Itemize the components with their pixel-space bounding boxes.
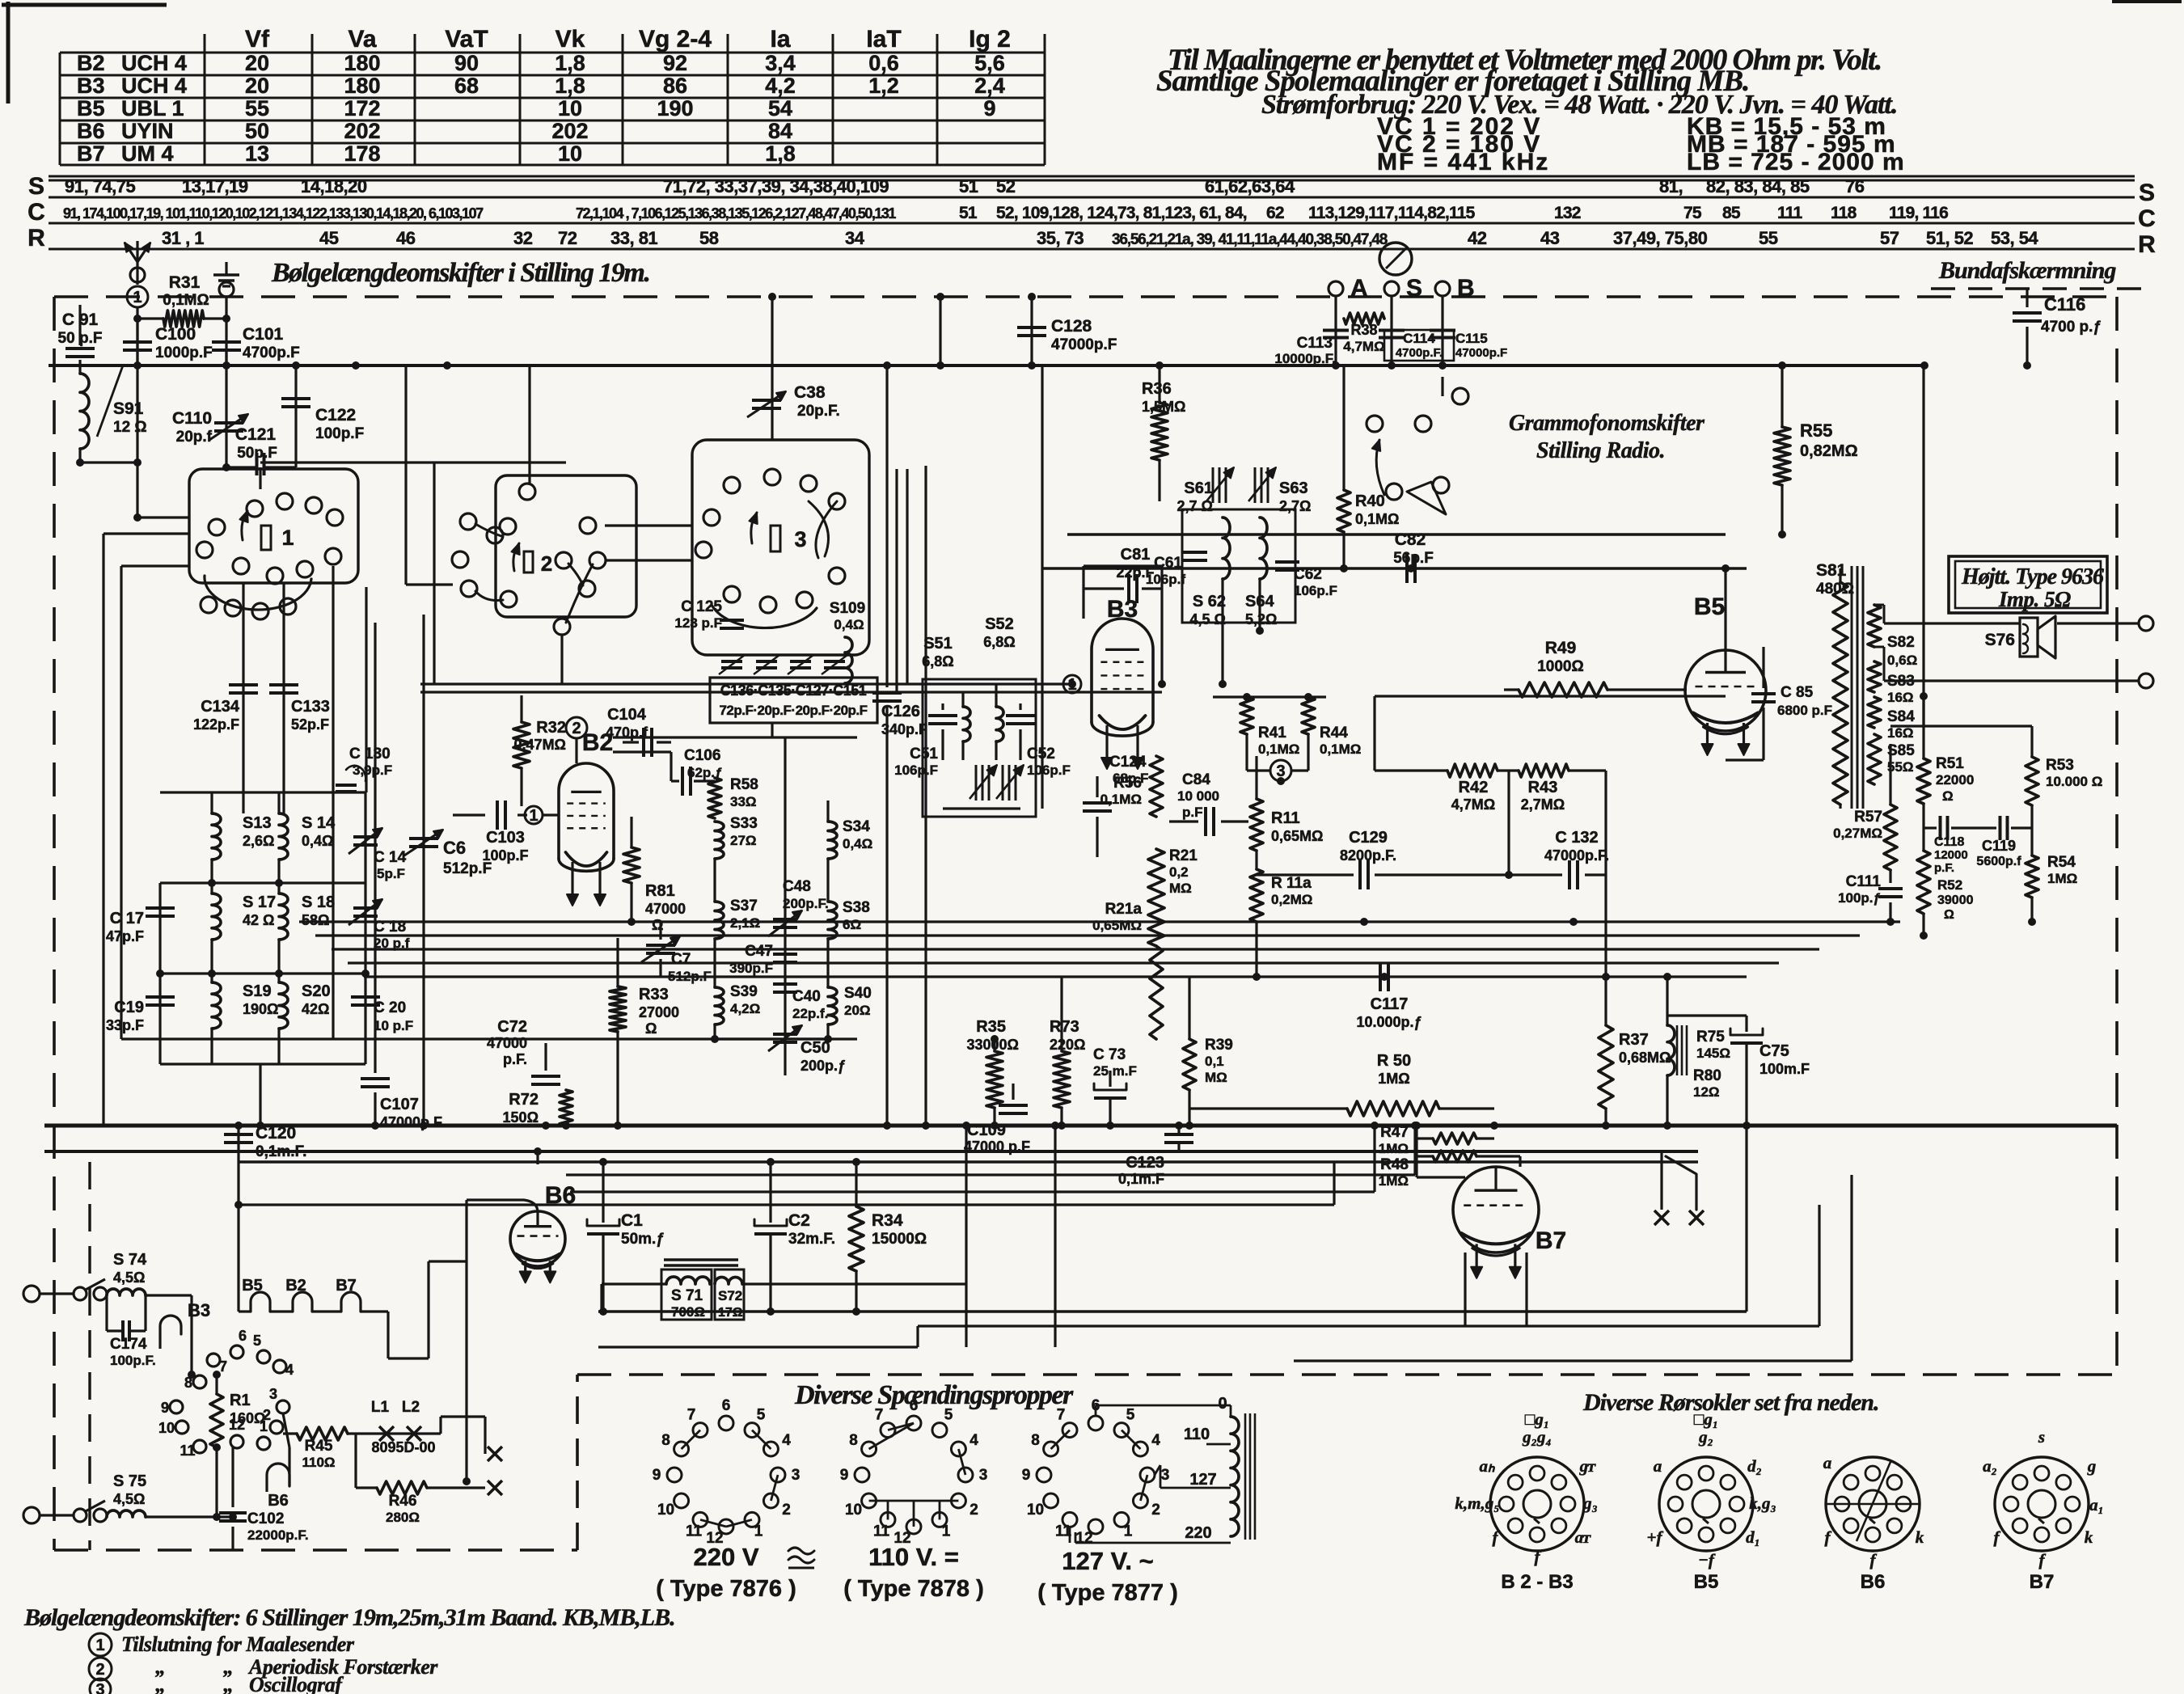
capacitor C2 — [754, 1232, 787, 1236]
svg-text:47000p.F: 47000p.F — [1051, 336, 1117, 353]
svg-text:10: 10 — [657, 1502, 674, 1519]
svg-text:R75: R75 — [1696, 1029, 1725, 1046]
svg-text:B5: B5 — [1694, 594, 1725, 620]
svg-text:S63: S63 — [1279, 479, 1308, 497]
wire vertical x453 — [365, 587, 367, 792]
svg-text:UCH 4: UCH 4 — [121, 74, 187, 98]
svg-text:R38: R38 — [1350, 322, 1377, 338]
wire vertical x2290 drop — [1850, 1175, 1852, 1361]
resistor R47 — [1433, 1133, 1476, 1144]
terminal A — [1329, 281, 1343, 296]
svg-text:R34: R34 — [872, 1211, 903, 1230]
capacitor C104 — [623, 741, 639, 743]
svg-text:2,6Ω: 2,6Ω — [243, 833, 274, 849]
svg-text:82, 83, 84, 85: 82, 83, 84, 85 — [1706, 176, 1810, 196]
gram switch arrow — [1376, 440, 1384, 495]
svg-text:27Ω: 27Ω — [730, 833, 757, 848]
rotary switch wafer 3 — [692, 440, 869, 655]
svg-text:R44: R44 — [1320, 724, 1348, 741]
svg-text:B7: B7 — [336, 1277, 357, 1295]
resistor R40 — [1342, 365, 1345, 490]
resistor R53 — [2026, 757, 2038, 805]
svg-text:92: 92 — [663, 51, 687, 75]
wire gram to C115 col — [1441, 377, 1443, 396]
svg-text:S52: S52 — [985, 615, 1014, 633]
svg-text:150Ω: 150Ω — [503, 1109, 539, 1126]
svg-text:100p.F.: 100p.F. — [110, 1353, 156, 1368]
svg-text:0,4Ω: 0,4Ω — [834, 617, 864, 632]
svg-text:L1: L1 — [371, 1399, 390, 1416]
svg-text:R53: R53 — [2046, 757, 2074, 774]
socket pin 2 — [270, 1421, 283, 1434]
svg-text:C61: C61 — [1154, 555, 1182, 572]
svg-text:4,5Ω: 4,5Ω — [113, 1269, 145, 1286]
svg-text:1MΩ: 1MΩ — [2047, 871, 2077, 886]
svg-text:B6: B6 — [545, 1182, 576, 1209]
wire lower return 2 — [598, 1345, 918, 1348]
svg-text:Oscillograf: Oscillograf — [249, 1673, 344, 1694]
iron core inductor L1 L2 — [348, 1432, 441, 1434]
svg-text:180: 180 — [344, 74, 380, 98]
svg-text:3: 3 — [794, 527, 806, 551]
svg-text:50: 50 — [245, 119, 269, 143]
wire speaker line top — [1884, 622, 2020, 624]
resistor R33 — [610, 986, 626, 1032]
mains terminal upper — [23, 1286, 40, 1302]
svg-text:34: 34 — [845, 228, 865, 248]
svg-text:127: 127 — [1189, 1471, 1216, 1489]
svg-text:C128: C128 — [1051, 317, 1092, 336]
capacitor C47 — [773, 953, 797, 956]
svg-text:11: 11 — [686, 1523, 703, 1540]
junction dots — [133, 361, 142, 370]
trimmer C18 — [364, 883, 366, 974]
switch 3 cross contacts — [809, 501, 829, 556]
svg-text:7: 7 — [687, 1407, 696, 1424]
svg-text:Ig 2: Ig 2 — [969, 26, 1011, 53]
wire C101 down — [225, 350, 227, 466]
capacitor C109 — [1012, 1084, 1014, 1100]
svg-text:172: 172 — [344, 96, 380, 120]
svg-text:10: 10 — [158, 1420, 175, 1436]
socket pin 6 — [230, 1345, 243, 1358]
svg-text:91, 74,75: 91, 74,75 — [65, 176, 136, 196]
capacitor C62 — [1275, 560, 1299, 564]
svg-text:1: 1 — [133, 289, 142, 306]
svg-text:9: 9 — [161, 1400, 169, 1416]
svg-text:36,56,21,21a, 39, 41,11,11a,44: 36,56,21,21a, 39, 41,11,11a,44,40,38,50,… — [1112, 231, 1388, 248]
svg-text:C121: C121 — [235, 425, 277, 444]
svg-text:7: 7 — [1057, 1407, 1066, 1424]
wire vertical x1750 drop — [1413, 1126, 1416, 1175]
svg-text:C116: C116 — [2044, 294, 2085, 315]
svg-text:S39: S39 — [730, 983, 758, 1000]
svg-text:1MΩ: 1MΩ — [1379, 1141, 1409, 1156]
svg-text:g₂g₄: g₂g₄ — [1522, 1427, 1552, 1447]
svg-text:76: 76 — [1845, 176, 1865, 196]
svg-text:C106: C106 — [684, 747, 720, 764]
capacitor C128 — [1030, 297, 1033, 365]
svg-text:S 71: S 71 — [671, 1287, 703, 1304]
svg-text:R51: R51 — [1936, 755, 1964, 772]
resistor R11a — [1250, 869, 1263, 922]
svg-text:55: 55 — [245, 96, 269, 120]
wire choke leads — [602, 1282, 666, 1285]
wire vertical x1195 — [965, 1126, 967, 1347]
terminal speaker bottom — [2139, 674, 2153, 688]
wire L2 to cross — [439, 1417, 441, 1434]
svg-text:100p.F: 100p.F — [482, 847, 528, 864]
resistor R48 — [1433, 1151, 1476, 1162]
svg-text:R80: R80 — [1693, 1067, 1721, 1084]
svg-text:13: 13 — [245, 142, 269, 166]
svg-text:R21: R21 — [1169, 847, 1198, 864]
heater B7 bottom — [341, 1292, 361, 1312]
svg-text:Bølgelængdeomskifter: 6 Stilli: Bølgelængdeomskifter: 6 Stillinger 19m,2… — [23, 1604, 675, 1631]
svg-text:22000p.F.: 22000p.F. — [247, 1527, 309, 1543]
variable capacitor C6 — [422, 615, 425, 1126]
svg-text:R: R — [27, 225, 45, 251]
svg-text:C122: C122 — [315, 406, 356, 425]
comb adjust S63 — [1254, 467, 1257, 503]
svg-text:C104: C104 — [607, 706, 647, 724]
wire S74 right — [146, 1294, 192, 1296]
socket pin 3 — [277, 1400, 289, 1413]
svg-text:k: k — [2085, 1527, 2093, 1547]
resistor R42 — [1447, 764, 1498, 777]
svg-text:C48: C48 — [783, 878, 811, 895]
svg-text:MF = 441 kHz: MF = 441 kHz — [1377, 149, 1549, 175]
svg-text:S82: S82 — [1887, 634, 1915, 651]
svg-text:C136·C135·C127·C151: C136·C135·C127·C151 — [720, 682, 867, 699]
svg-text:−f: −f — [1698, 1550, 1716, 1569]
socket pin 1 — [257, 1437, 270, 1450]
svg-text:1: 1 — [1124, 1523, 1133, 1540]
resistor R11 — [1250, 799, 1263, 851]
resistor R72 — [560, 1090, 572, 1126]
svg-text:R11: R11 — [1271, 809, 1300, 827]
svg-text:4700 p.ƒ: 4700 p.ƒ — [2041, 319, 2102, 336]
coil S17 — [212, 893, 221, 940]
speaker box hoejttaler — [1949, 556, 2107, 613]
coil S52 — [996, 707, 1003, 741]
wire R41 R44 top tie — [1213, 695, 1326, 698]
svg-text:340p.F: 340p.F — [881, 721, 927, 737]
svg-text:k,m,g₅: k,m,g₅ — [1455, 1493, 1499, 1513]
svg-text:B7: B7 — [2030, 1571, 2055, 1593]
svg-text:p.F.: p.F. — [503, 1051, 527, 1067]
svg-text:51: 51 — [959, 204, 978, 222]
svg-text:Vk: Vk — [556, 26, 585, 53]
wire oscillator column tie — [715, 1037, 828, 1040]
svg-text:C82: C82 — [1395, 530, 1426, 549]
svg-text:4: 4 — [782, 1432, 791, 1449]
legend node 2 — [89, 1658, 112, 1680]
C row line — [49, 222, 2135, 225]
wire 127V tap 220 — [1075, 1542, 1231, 1544]
wire coil row3 bottom tie — [160, 1062, 365, 1065]
wire vertical x1163 top — [939, 297, 941, 365]
wire S63 column down — [1258, 579, 1261, 631]
svg-text:C111: C111 — [1846, 873, 1882, 890]
svg-text:110Ω: 110Ω — [302, 1455, 335, 1470]
capacitor C52 — [1019, 703, 1021, 710]
capacitor C124 — [1096, 776, 1098, 797]
svg-text:5: 5 — [253, 1333, 261, 1349]
svg-text:10 000: 10 000 — [1177, 788, 1219, 804]
capacitor C111 — [1889, 870, 1891, 883]
svg-text:20Ω: 20Ω — [844, 1003, 871, 1018]
svg-text:0,1MΩ: 0,1MΩ — [163, 292, 209, 309]
svg-text:202: 202 — [344, 119, 380, 143]
svg-text:13,17,19: 13,17,19 — [182, 176, 248, 196]
svg-text:127 V. ~: 127 V. ~ — [1062, 1547, 1154, 1575]
secondary S84 — [1868, 697, 1881, 728]
svg-text:S 17: S 17 — [243, 893, 276, 911]
svg-text:50p.F: 50p.F — [237, 445, 277, 462]
scan frame mark top-left — [2, 3, 167, 7]
capacitor C115 — [1430, 329, 1455, 332]
svg-text:d₂: d₂ — [1747, 1456, 1762, 1476]
earth ground symbol — [225, 262, 227, 275]
S row top double line — [49, 175, 2135, 178]
svg-text:10: 10 — [845, 1502, 862, 1519]
svg-text:UBL 1: UBL 1 — [121, 96, 184, 120]
wire second bottom bus — [44, 1150, 1698, 1153]
svg-text:0,1: 0,1 — [1205, 1054, 1224, 1069]
chassis border dashed step — [576, 1375, 579, 1550]
tube socket B6 — [1826, 1457, 1920, 1551]
adapter plug 220V type 7876 — [719, 1416, 733, 1430]
svg-text:8: 8 — [661, 1432, 670, 1449]
chassis border dashed bottom right — [577, 1373, 2117, 1376]
wire right cluster to bundle — [1922, 696, 1924, 726]
wire C103 to B2 — [543, 813, 560, 816]
svg-text:1: 1 — [95, 1637, 104, 1654]
svg-text:C134: C134 — [201, 698, 240, 716]
svg-text:25 m.F: 25 m.F — [1093, 1063, 1137, 1079]
svg-text:178: 178 — [344, 142, 380, 166]
svg-text:4,7MΩ: 4,7MΩ — [1343, 339, 1384, 354]
svg-text:20: 20 — [245, 74, 269, 98]
svg-text:200p.ƒ: 200p.ƒ — [801, 1058, 846, 1074]
svg-text:C72: C72 — [497, 1018, 527, 1036]
svg-text:C 14: C 14 — [374, 849, 407, 866]
wire wafer2 bottom drop — [560, 635, 563, 684]
svg-text:Diverse Rørsokler set fra nede: Diverse Rørsokler set fra neden. — [1582, 1389, 1878, 1416]
svg-text:R1: R1 — [230, 1392, 251, 1409]
capacitor C82 — [1405, 554, 1409, 583]
speaker S76 — [2020, 618, 2038, 657]
svg-text:52p.F: 52p.F — [291, 716, 329, 733]
resistor R35 — [986, 1051, 1003, 1108]
rotary switch wafer 1 — [189, 469, 358, 583]
svg-text:C 17: C 17 — [110, 910, 144, 927]
svg-text:190Ω: 190Ω — [243, 1001, 278, 1017]
svg-text:220Ω: 220Ω — [1050, 1037, 1085, 1053]
capacitor C20 — [364, 974, 366, 1064]
svg-text:S84: S84 — [1887, 708, 1915, 725]
svg-text:g: g — [2087, 1456, 2097, 1476]
svg-text:1,2: 1,2 — [868, 74, 899, 98]
svg-text:p.F.: p.F. — [1934, 861, 1954, 875]
svg-text:0,6Ω: 0,6Ω — [1887, 653, 1917, 668]
wire B6 heater ties — [265, 1486, 268, 1492]
svg-text:81,: 81, — [1659, 176, 1683, 196]
tone coil R80 — [1667, 1025, 1675, 1075]
socket pin 8 — [193, 1375, 206, 1388]
capacitor C121 — [256, 453, 259, 475]
resistor R73 — [1054, 1051, 1070, 1108]
capacitor C1 — [587, 1232, 619, 1236]
padder capacitor box C136 C135 C127 C151 — [710, 678, 877, 723]
svg-text:2,7MΩ: 2,7MΩ — [1521, 796, 1565, 813]
wire wafer3 bottom to box — [771, 723, 773, 737]
coil S14 — [279, 813, 288, 860]
resistor R46 — [377, 1481, 427, 1494]
cross terminal upper — [488, 1447, 502, 1461]
svg-text:1,8: 1,8 — [555, 51, 585, 75]
gram switch contacts — [1367, 416, 1383, 432]
svg-text:0,1m.F: 0,1m.F — [1118, 1171, 1164, 1187]
svg-text:B3: B3 — [1107, 596, 1138, 623]
coil S38 — [828, 902, 837, 939]
svg-text:R40: R40 — [1355, 492, 1385, 510]
svg-text:106p.F: 106p.F — [1294, 583, 1337, 598]
svg-text:3: 3 — [1161, 1467, 1170, 1484]
svg-text:C123: C123 — [1126, 1154, 1164, 1172]
wire bottom tie y1285 — [121, 1037, 857, 1040]
svg-text:2,7Ω: 2,7Ω — [1279, 498, 1311, 514]
resistor R55 — [1781, 365, 1783, 427]
svg-text:g₃: g₃ — [1582, 1493, 1598, 1513]
svg-text:4: 4 — [285, 1362, 294, 1378]
capacitor C129 — [1257, 873, 1354, 876]
svg-text:86: 86 — [663, 74, 687, 98]
resistor R36 — [1158, 365, 1160, 403]
socket pin 5 — [257, 1350, 270, 1363]
svg-text:s: s — [2038, 1427, 2045, 1447]
svg-text:51: 51 — [959, 176, 978, 196]
capacitor C19 — [158, 974, 161, 1064]
svg-text:Ω: Ω — [1944, 908, 1954, 922]
svg-text:7: 7 — [219, 1358, 227, 1375]
svg-text:S37: S37 — [730, 898, 758, 915]
trimmer C14 — [364, 792, 366, 883]
capacitor C40 — [773, 982, 797, 986]
svg-text:Tilslutning for Maalesender: Tilslutning for Maalesender — [121, 1633, 355, 1656]
svg-text:10.000 Ω: 10.000 Ω — [2046, 774, 2102, 789]
svg-text:S91: S91 — [113, 399, 144, 418]
svg-text:4,2Ω: 4,2Ω — [730, 1001, 760, 1016]
svg-text:5,6: 5,6 — [974, 51, 1005, 75]
resistor R41 — [1240, 697, 1253, 734]
svg-text:S34: S34 — [843, 818, 870, 835]
socket pin 12 — [230, 1435, 243, 1448]
resistor R39 — [1183, 1039, 1196, 1090]
resistor R43 — [1519, 764, 1569, 777]
wire bundle line 5 — [364, 975, 1747, 978]
resistor R34 — [849, 1206, 864, 1271]
heater B2 bottom — [293, 1292, 312, 1312]
capacitor C119 — [1999, 816, 2002, 840]
wire antenna down — [136, 307, 138, 365]
adapter plug 127V type 7877 — [1088, 1416, 1103, 1430]
wire 127V tap 0 — [1095, 1405, 1097, 1416]
svg-text:46: 46 — [396, 228, 416, 248]
capacitor C120 — [237, 1126, 239, 1205]
svg-text:0,65MΩ: 0,65MΩ — [1092, 918, 1142, 933]
svg-text:1,8: 1,8 — [555, 74, 585, 98]
svg-text:10: 10 — [1027, 1502, 1044, 1519]
svg-text:R 50: R 50 — [1377, 1052, 1411, 1070]
switch S75 — [74, 1509, 87, 1522]
svg-text:12 Ω: 12 Ω — [113, 419, 147, 436]
svg-text:C126: C126 — [881, 703, 920, 720]
svg-text:UYIN: UYIN — [121, 119, 174, 143]
wire vertical x1650 drop — [1333, 1162, 1335, 1205]
coil S63 — [1260, 517, 1267, 579]
svg-text:202: 202 — [551, 119, 588, 143]
resistor R1 — [210, 1394, 223, 1447]
svg-text:B: B — [1457, 275, 1475, 302]
svg-text:B5: B5 — [242, 1277, 263, 1295]
svg-text:R81: R81 — [645, 882, 675, 900]
svg-text:51, 52: 51, 52 — [1926, 228, 1973, 248]
svg-text:4: 4 — [1151, 1432, 1160, 1449]
wire x537 drop — [433, 463, 435, 684]
svg-text:C 73: C 73 — [1093, 1046, 1126, 1063]
svg-text:42: 42 — [1468, 228, 1487, 248]
svg-text:( Type 7876 ): ( Type 7876 ) — [656, 1576, 796, 1602]
svg-text:0: 0 — [1218, 1395, 1227, 1413]
IF can S61 S63 — [1182, 509, 1295, 623]
svg-text:160Ω: 160Ω — [230, 1410, 265, 1426]
wire mid bus y661 — [1067, 533, 1726, 535]
svg-text:B6: B6 — [268, 1492, 289, 1510]
wire node2 to B2 top — [575, 738, 577, 763]
secondary S85 — [1868, 734, 1881, 784]
svg-text:47000p.F: 47000p.F — [1455, 346, 1507, 360]
svg-text:R36: R36 — [1142, 380, 1172, 398]
svg-text:C118: C118 — [1934, 835, 1964, 849]
svg-text:390p.F: 390p.F — [729, 961, 773, 976]
svg-text:L2: L2 — [402, 1399, 420, 1416]
svg-text:512p.F: 512p.F — [668, 969, 712, 984]
wire vertical x1122 — [906, 469, 908, 684]
svg-text:S: S — [2139, 180, 2155, 206]
svg-text:UM 4: UM 4 — [121, 142, 174, 166]
wire heater chain 1 — [158, 1334, 161, 1349]
svg-text:53, 54: 53, 54 — [1991, 228, 2038, 248]
svg-text:S 62: S 62 — [1193, 593, 1226, 610]
wire S down — [1390, 296, 1392, 365]
svg-text:5: 5 — [1126, 1407, 1135, 1424]
svg-text:33p.F: 33p.F — [106, 1017, 144, 1033]
svg-text:C52: C52 — [1027, 746, 1055, 763]
svg-text:58Ω: 58Ω — [302, 912, 329, 928]
svg-text:56p.F: 56p.F — [1393, 550, 1434, 567]
svg-text:C47: C47 — [745, 943, 773, 960]
svg-text:68: 68 — [454, 74, 479, 98]
svg-text:0,82MΩ: 0,82MΩ — [1800, 442, 1858, 460]
svg-text:9: 9 — [840, 1467, 849, 1484]
tube B7 magic eye — [1453, 1167, 1539, 1253]
socket pin 9 — [170, 1400, 183, 1413]
svg-text:5: 5 — [757, 1407, 766, 1424]
svg-text:R21a: R21a — [1105, 901, 1143, 918]
resistor R52 — [1917, 851, 1930, 914]
